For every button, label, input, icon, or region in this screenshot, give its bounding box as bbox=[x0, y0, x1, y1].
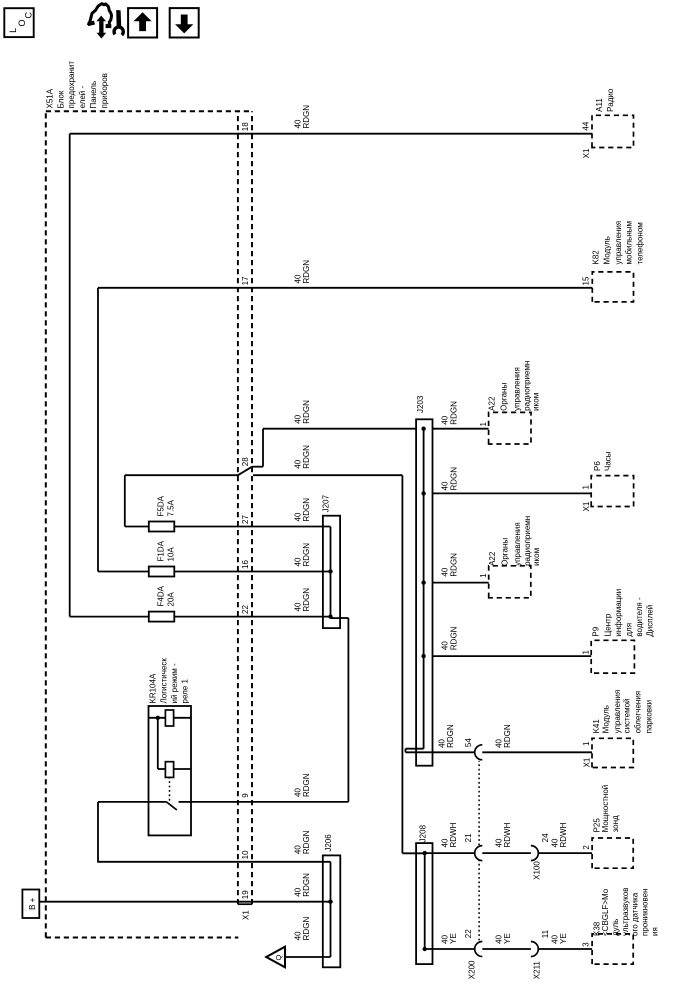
svg-text:A22: A22 bbox=[488, 551, 497, 566]
svg-text:40: 40 bbox=[494, 934, 503, 943]
wire pin 28 with connector jog bbox=[125, 429, 263, 476]
svg-text:водителя -: водителя - bbox=[635, 597, 644, 637]
svg-text:K41: K41 bbox=[592, 719, 601, 734]
fuse F4DA 20A bbox=[70, 612, 331, 622]
svg-text:реле 1: реле 1 bbox=[180, 679, 189, 704]
svg-text:X51A: X51A bbox=[45, 88, 54, 108]
svg-text:1: 1 bbox=[479, 422, 488, 427]
svg-text:22: 22 bbox=[241, 605, 250, 614]
svg-text:9: 9 bbox=[241, 793, 250, 798]
wire label 40 RDGN (pin 16) bbox=[293, 543, 311, 567]
svg-text:X1: X1 bbox=[582, 757, 591, 767]
svg-text:A11: A11 bbox=[595, 98, 604, 112]
svg-text:40: 40 bbox=[293, 788, 302, 797]
svg-text:11: 11 bbox=[541, 929, 550, 938]
svg-text:44: 44 bbox=[581, 121, 590, 130]
svg-text:мобильным: мобильным bbox=[625, 221, 634, 265]
svg-text:управления: управления bbox=[614, 221, 623, 265]
svg-text:Панель: Панель bbox=[89, 81, 98, 109]
svg-text:40: 40 bbox=[293, 414, 302, 423]
connector X200 pin 21 half bbox=[475, 846, 483, 861]
module A22 radio controls (2) bbox=[489, 566, 531, 598]
svg-text:RDGN: RDGN bbox=[302, 917, 311, 941]
svg-text:10A: 10A bbox=[167, 547, 176, 562]
svg-text:2: 2 bbox=[582, 845, 591, 850]
module K82 mobile phone control module bbox=[592, 272, 633, 302]
label J208 bbox=[418, 824, 427, 842]
svg-text:J206: J206 bbox=[324, 834, 333, 852]
wire label 40 RDGN (A22 tap) bbox=[441, 401, 459, 425]
wire relay to X1 pin 9 to J207 bbox=[191, 618, 348, 802]
fuse box X51A (dashed outline) bbox=[46, 111, 253, 937]
pin 3 K38 bbox=[581, 942, 590, 947]
svg-text:A22: A22 bbox=[487, 396, 496, 411]
relay switch contact bbox=[167, 802, 192, 810]
pin 44 A11 bbox=[581, 121, 590, 130]
svg-text:RDGN: RDGN bbox=[302, 400, 311, 424]
pin 10 bbox=[241, 850, 250, 859]
wire X1 pin 18 to A11 radio bbox=[70, 133, 592, 135]
svg-text:40: 40 bbox=[441, 481, 450, 490]
wire label 40 RDWH (P25 upper) bbox=[440, 822, 458, 847]
label P6 bbox=[593, 451, 613, 471]
wire label 40 RDGN (pin 10) bbox=[293, 830, 311, 854]
svg-text:RDGN: RDGN bbox=[302, 588, 311, 612]
connector X1 strip bbox=[238, 111, 252, 904]
wire label 40 RDGN (pin 27) bbox=[293, 498, 311, 522]
wire J203 to P9 driver info display bbox=[433, 655, 592, 657]
junction dot J203 P9 bbox=[421, 654, 425, 658]
wire label 40 YE (K38 mid) bbox=[494, 933, 512, 944]
svg-text:19: 19 bbox=[241, 890, 250, 899]
label X100 bbox=[533, 861, 542, 880]
pin 1 A22 bbox=[479, 422, 488, 427]
svg-text:F4DA: F4DA bbox=[157, 585, 166, 606]
svg-text:40: 40 bbox=[494, 838, 503, 847]
svg-text:40: 40 bbox=[550, 838, 559, 847]
svg-text:Центр: Центр bbox=[604, 613, 613, 636]
wire triangle to J206 bbox=[285, 956, 331, 958]
splice J203 bbox=[416, 419, 432, 765]
fuse F1DA 10A bbox=[98, 567, 331, 577]
wire J203 to A22 control (2) bbox=[433, 582, 489, 584]
svg-text:1: 1 bbox=[582, 741, 591, 746]
module A22 radio controls (1) bbox=[489, 412, 531, 444]
pin 1 P6 bbox=[581, 485, 590, 490]
wire label 40 RDGN (A22-2 tap) bbox=[441, 553, 459, 577]
icon down-arrow button bbox=[170, 8, 199, 37]
svg-text:O: O bbox=[17, 19, 27, 26]
wire J203 to A22 control bbox=[433, 428, 489, 430]
svg-text:40: 40 bbox=[293, 845, 302, 854]
svg-text:40: 40 bbox=[293, 887, 302, 896]
junction dot pin19/J206 bbox=[328, 900, 332, 904]
connector X100 bbox=[531, 846, 538, 861]
wire label 40 RDGN (J208 feed) bbox=[293, 445, 311, 469]
svg-text:RDGN: RDGN bbox=[449, 401, 458, 425]
svg-text:40: 40 bbox=[293, 512, 302, 521]
label X200 bbox=[468, 960, 477, 979]
svg-text:X1: X1 bbox=[582, 501, 591, 511]
label X1 P6 bbox=[582, 501, 591, 511]
label X1 K41 bbox=[582, 757, 591, 767]
svg-text:1: 1 bbox=[479, 573, 488, 578]
svg-text:40: 40 bbox=[293, 931, 302, 940]
svg-text:RDGN: RDGN bbox=[449, 626, 458, 650]
pin 18 bbox=[241, 122, 250, 131]
relay KR104A box bbox=[149, 706, 192, 835]
svg-text:F1DA: F1DA bbox=[157, 540, 166, 561]
junction dot J203 A22-2 bbox=[421, 580, 425, 584]
wire label 40 RDGN (P9 tap) bbox=[441, 626, 459, 650]
pin 2 P25 bbox=[582, 845, 591, 850]
pin 22 X200 bbox=[464, 929, 473, 938]
module K38 ultrasonic intrusion sensor module bbox=[592, 934, 633, 964]
wire J203 to P6 clock bbox=[433, 492, 592, 494]
svg-text:Дисплей: Дисплей bbox=[646, 605, 655, 637]
svg-text:управления: управления bbox=[512, 367, 521, 411]
svg-text:проникновен: проникновен bbox=[641, 888, 650, 936]
svg-text:27: 27 bbox=[241, 515, 250, 524]
pin 1 K41 bbox=[582, 741, 591, 746]
relay coil link wire bbox=[157, 718, 159, 769]
relay linkage dotted bbox=[169, 777, 171, 800]
label X1 bbox=[242, 910, 251, 920]
svg-text:ия: ия bbox=[651, 927, 660, 936]
pin 1 A22-2 bbox=[479, 573, 488, 578]
svg-text:дуль: дуль bbox=[611, 919, 620, 936]
bus wire pin22 to pin18 bbox=[69, 134, 71, 617]
label F1DA 10A bbox=[157, 540, 176, 561]
icon hand with double arrow bbox=[88, 4, 123, 39]
svg-text:1: 1 bbox=[581, 650, 590, 655]
relay coil branch A bbox=[149, 710, 192, 726]
label KR104A relay bbox=[149, 658, 190, 704]
svg-text:Модуль: Модуль bbox=[602, 705, 611, 733]
wire J207 exit to pin 9 path bbox=[331, 617, 341, 619]
junction dot J203 feed bbox=[421, 427, 425, 431]
wire label 40 RDGN (pin 17) bbox=[293, 260, 311, 284]
svg-text:40: 40 bbox=[440, 838, 449, 847]
svg-text:приборов: приборов bbox=[100, 73, 109, 108]
svg-text:елей -: елей - bbox=[78, 86, 87, 109]
power triangle symbol Q bbox=[266, 947, 285, 968]
wire label 40 RDGN (pin 18) bbox=[293, 105, 311, 129]
svg-text:40: 40 bbox=[440, 934, 449, 943]
svg-text:X211: X211 bbox=[533, 961, 542, 980]
svg-text:1: 1 bbox=[581, 485, 590, 490]
battery terminal B+ bbox=[22, 890, 39, 919]
svg-text:RDGN: RDGN bbox=[302, 260, 311, 284]
label X1 A11 bbox=[582, 148, 591, 158]
wire label 40 RDGN (K41 upper) bbox=[437, 724, 455, 748]
svg-text:<CBGLF>Мо: <CBGLF>Мо bbox=[601, 888, 610, 936]
svg-text:B +: B + bbox=[28, 897, 37, 910]
label J203 bbox=[416, 395, 425, 413]
pin 24 bbox=[541, 833, 550, 842]
svg-text:Радио: Радио bbox=[606, 88, 615, 112]
svg-text:F5DA: F5DA bbox=[157, 495, 166, 516]
svg-text:системой: системой bbox=[622, 698, 631, 733]
label A22 (1) bbox=[487, 361, 540, 411]
svg-text:J203: J203 bbox=[416, 395, 425, 413]
wire label 40 RDGN (P6 tap) bbox=[441, 467, 459, 491]
svg-text:K82: K82 bbox=[591, 250, 600, 265]
splice J206 bbox=[323, 855, 341, 967]
svg-text:YE: YE bbox=[503, 933, 512, 944]
bus wire pin16 to pin17 bbox=[97, 288, 99, 572]
label A11 bbox=[595, 88, 615, 112]
svg-text:20A: 20A bbox=[167, 592, 176, 607]
svg-text:Модуль: Модуль bbox=[603, 236, 612, 264]
junction dot J207 F1DA bbox=[328, 569, 332, 573]
svg-text:40: 40 bbox=[293, 602, 302, 611]
svg-text:Блок: Блок bbox=[56, 90, 65, 108]
svg-text:Мощностной: Мощностной bbox=[601, 785, 610, 833]
wire label 40 RDGN (pin 9) bbox=[293, 773, 311, 797]
svg-text:RDGN: RDGN bbox=[449, 467, 458, 491]
label X51A fuse block bbox=[45, 61, 109, 109]
svg-text:40: 40 bbox=[441, 567, 450, 576]
wire into relay switch bbox=[98, 801, 167, 803]
svg-text:RDGN: RDGN bbox=[302, 773, 311, 797]
pin 11 bbox=[541, 929, 550, 938]
svg-text:Органы: Органы bbox=[500, 383, 509, 411]
svg-text:Часы: Часы bbox=[604, 451, 613, 471]
label K82 bbox=[591, 221, 644, 265]
svg-text:для: для bbox=[624, 623, 633, 637]
label K38 bbox=[592, 887, 659, 936]
connector X211 bbox=[531, 942, 538, 957]
svg-text:X1: X1 bbox=[242, 910, 251, 920]
label X211 bbox=[533, 961, 542, 980]
wire pin28 branch to splice J203 bbox=[263, 428, 416, 430]
label J207 bbox=[322, 494, 331, 512]
svg-text:ультразвуков: ультразвуков bbox=[621, 887, 630, 936]
svg-text:18: 18 bbox=[241, 122, 250, 131]
svg-text:YE: YE bbox=[559, 933, 568, 944]
label F5DA 7.5A bbox=[157, 495, 176, 516]
svg-text:YE: YE bbox=[449, 933, 458, 944]
wire X1 pin 17 to K82 bbox=[98, 287, 592, 289]
svg-text:RDGN: RDGN bbox=[446, 724, 455, 748]
svg-text:KR104A: KR104A bbox=[149, 673, 158, 703]
connector X200 dotted line bbox=[478, 761, 480, 941]
svg-text:L: L bbox=[8, 28, 18, 33]
pin 19 bbox=[241, 890, 250, 899]
svg-text:телефоном: телефоном bbox=[636, 222, 645, 264]
svg-text:X100: X100 bbox=[533, 861, 542, 880]
icon up-arrow button bbox=[128, 8, 157, 37]
wire label 40 RDWH (P25 mid) bbox=[494, 822, 512, 847]
svg-text:X1: X1 bbox=[582, 148, 591, 158]
label P9 line 6 bbox=[646, 605, 655, 637]
svg-text:16: 16 bbox=[241, 560, 250, 569]
pin 21 bbox=[464, 833, 473, 842]
svg-text:24: 24 bbox=[541, 833, 550, 842]
svg-text:40: 40 bbox=[293, 459, 302, 468]
svg-text:RDGN: RDGN bbox=[302, 498, 311, 522]
wire J206 to X1 pin 10 to relay bbox=[98, 802, 331, 863]
svg-text:RDWH: RDWH bbox=[559, 822, 568, 847]
wire label 40 RDGN (pin 19) bbox=[293, 873, 311, 897]
module K41 parking assist control module bbox=[592, 738, 633, 767]
label P9 bbox=[591, 589, 644, 637]
wire label 40 RDGN (pin 22) bbox=[293, 588, 311, 612]
module P9 driver information center bbox=[591, 640, 634, 673]
svg-text:управления: управления bbox=[613, 690, 622, 734]
svg-text:C: C bbox=[23, 12, 33, 19]
wire label 40 RDWH (P25 lower) bbox=[550, 822, 568, 847]
label J206 bbox=[324, 834, 333, 852]
label P25 bbox=[592, 785, 620, 833]
svg-text:40: 40 bbox=[494, 738, 503, 747]
connector X200 pin 54 half bbox=[475, 745, 483, 760]
svg-text:управления: управления bbox=[513, 522, 522, 566]
pin 16 bbox=[241, 560, 250, 569]
svg-text:Органы: Органы bbox=[500, 538, 509, 566]
svg-text:40: 40 bbox=[550, 934, 559, 943]
svg-text:40: 40 bbox=[437, 738, 446, 747]
junction dot relay coil bbox=[156, 716, 160, 720]
svg-text:10: 10 bbox=[241, 850, 250, 859]
wire J208 to P25 power sounder bbox=[425, 852, 592, 854]
pin 27 bbox=[241, 515, 250, 524]
junction dot J208 feed bbox=[423, 851, 427, 855]
svg-text:RDGN: RDGN bbox=[449, 553, 458, 577]
pin 22 bbox=[241, 605, 250, 614]
svg-text:RDGN: RDGN bbox=[302, 543, 311, 567]
svg-text:54: 54 bbox=[464, 738, 473, 747]
svg-text:RDGN: RDGN bbox=[302, 830, 311, 854]
relay coil branch B bbox=[158, 762, 191, 778]
svg-text:40: 40 bbox=[441, 641, 450, 650]
pin 54 bbox=[464, 738, 473, 747]
wire J203 to K41 parking assist bbox=[406, 749, 593, 753]
label F4DA 20A bbox=[157, 585, 176, 606]
pin 17 bbox=[241, 276, 250, 285]
svg-text:17: 17 bbox=[241, 276, 250, 285]
label K41 bbox=[592, 690, 653, 734]
svg-text:Q: Q bbox=[274, 955, 283, 961]
junction dot J208 K38 bbox=[423, 947, 427, 951]
svg-text:J208: J208 bbox=[418, 824, 427, 842]
pin 1 P9 bbox=[581, 650, 590, 655]
svg-text:RDGN: RDGN bbox=[503, 724, 512, 748]
pin 28 bbox=[241, 457, 250, 466]
wire B+ to X1 pin 19 to splice J206 bbox=[39, 901, 330, 903]
svg-text:40: 40 bbox=[293, 274, 302, 283]
svg-text:ий режим -: ий режим - bbox=[170, 663, 179, 704]
svg-text:15: 15 bbox=[581, 276, 590, 285]
svg-text:RDWH: RDWH bbox=[449, 822, 458, 847]
wire label 40 YE (K38 lower) bbox=[550, 933, 568, 944]
fuse F5DA 7.5A bbox=[125, 522, 331, 532]
module P6 clock bbox=[591, 476, 633, 507]
svg-text:40: 40 bbox=[293, 557, 302, 566]
svg-text:RDGN: RDGN bbox=[302, 445, 311, 469]
wire pin28 branch to splice J208 bbox=[253, 475, 425, 853]
svg-text:Логистическ: Логистическ bbox=[160, 658, 169, 704]
wire label 40 RDGN (J203 feed) bbox=[293, 400, 311, 424]
junction dot J207 F4DA bbox=[328, 614, 332, 618]
svg-text:зонд: зонд bbox=[611, 815, 620, 832]
svg-text:иком: иком bbox=[532, 393, 541, 411]
svg-text:28: 28 bbox=[241, 457, 250, 466]
junction dot J203 P6 bbox=[421, 491, 425, 495]
bus wire pin27 to pin28 branch bbox=[124, 475, 126, 526]
svg-text:информации: информации bbox=[614, 589, 623, 637]
module P25 power sounder bbox=[592, 838, 633, 868]
splice J207 bbox=[323, 516, 340, 628]
wire label 40 RDGN (K41 lower) bbox=[494, 724, 512, 748]
svg-text:RDGN: RDGN bbox=[302, 105, 311, 129]
svg-text:предохранит: предохранит bbox=[67, 61, 76, 109]
svg-text:радиоприемн: радиоприемн bbox=[522, 361, 531, 411]
svg-text:22: 22 bbox=[464, 929, 473, 938]
splice J208 bbox=[416, 843, 432, 964]
svg-text:парковки: парковки bbox=[644, 700, 653, 734]
svg-text:X200: X200 bbox=[468, 960, 477, 979]
svg-text:иком: иком bbox=[532, 548, 541, 566]
connector X200 pin 22 half bbox=[475, 942, 483, 957]
wire label 40 YE (K38 upper) bbox=[440, 933, 458, 944]
svg-text:21: 21 bbox=[464, 833, 473, 842]
wire label 40 RDGN (triangle branch) bbox=[293, 917, 311, 941]
icon LOC box bbox=[4, 8, 33, 37]
svg-text:RDWH: RDWH bbox=[503, 822, 512, 847]
svg-text:3: 3 bbox=[581, 942, 590, 947]
pin 15 K82 bbox=[581, 276, 590, 285]
svg-text:радиоприемн: радиоприемн bbox=[523, 516, 532, 566]
pin 9 bbox=[241, 793, 250, 798]
svg-text:облегчения: облегчения bbox=[633, 691, 642, 734]
svg-text:P9: P9 bbox=[591, 626, 600, 636]
svg-text:40: 40 bbox=[293, 119, 302, 128]
svg-text:RDGN: RDGN bbox=[302, 873, 311, 897]
svg-text:P6: P6 bbox=[593, 461, 602, 471]
svg-text:ого датчика: ого датчика bbox=[631, 892, 640, 936]
wire J208 to K38 ultrasonic module bbox=[425, 948, 592, 950]
module A11 radio bbox=[592, 115, 634, 147]
label A22 (2) bbox=[488, 516, 541, 566]
svg-text:40: 40 bbox=[441, 415, 450, 424]
svg-text:7.5A: 7.5A bbox=[167, 499, 176, 516]
svg-text:J207: J207 bbox=[322, 494, 331, 512]
